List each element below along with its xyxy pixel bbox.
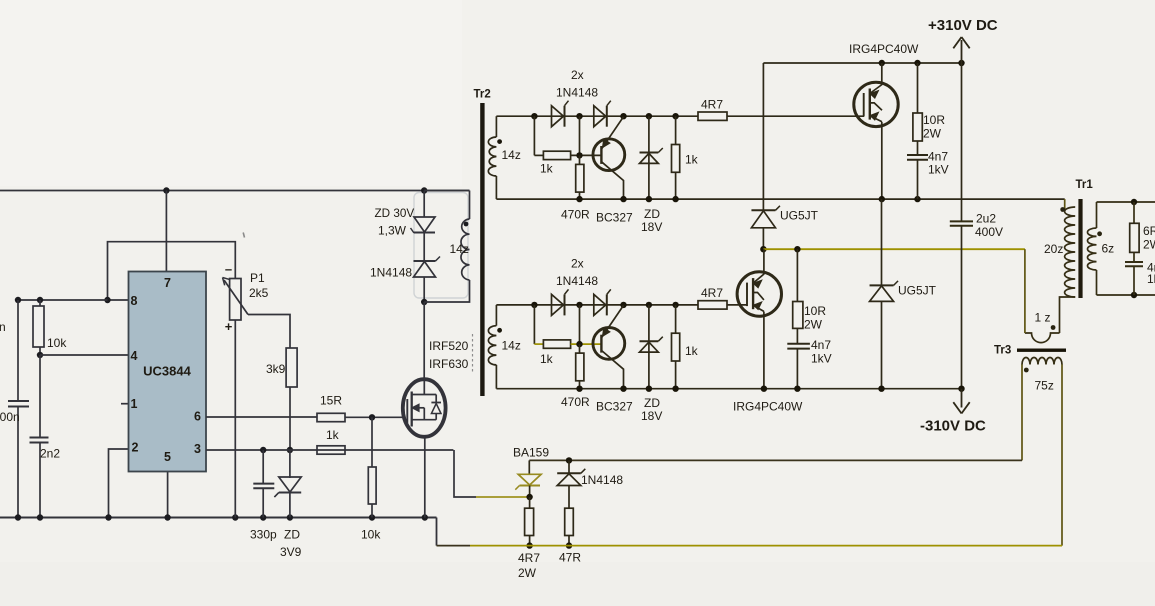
svg-text:1k: 1k — [540, 162, 554, 176]
wire sense bottom rail dark part — [437, 545, 471, 547]
resistor 4R7 gate — [698, 112, 727, 120]
wire MOSFET source to ground — [424, 436, 426, 518]
diode UG5JT bottom branch — [881, 199, 883, 285]
wire pin 5 to ground — [167, 471, 169, 518]
resistor 1k vertical — [672, 145, 680, 173]
svg-text:IRF630: IRF630 — [429, 357, 469, 371]
node 10k top — [37, 297, 43, 303]
resistor 470R — [576, 164, 584, 192]
svg-text:IRG4PC40W: IRG4PC40W — [733, 400, 803, 414]
zener ZD 18V — [648, 305, 650, 389]
IGBT mid stroke — [753, 293, 764, 300]
node 1N4148 sense top — [566, 457, 572, 463]
node pin4 junction — [37, 352, 43, 358]
-310V DC arrow — [953, 389, 969, 414]
svg-text:4R7: 4R7 — [701, 98, 723, 112]
svg-text:P1: P1 — [250, 271, 265, 285]
svg-text:20z: 20z — [1044, 242, 1063, 256]
wire sense down-jog — [454, 450, 476, 497]
wire left branch lower — [17, 407, 19, 518]
IC U1 UC3844 body — [129, 272, 207, 472]
wire 4R7 to top IGBT gate — [727, 115, 864, 117]
wire 75z left to sense top rail — [1021, 365, 1023, 461]
wire ground rail — [0, 517, 437, 519]
diode D2 1N4148 — [594, 106, 606, 127]
wire pin 3 current sense — [206, 449, 453, 451]
phase dot secondary — [497, 139, 502, 144]
capacitor 4n7 1kV bottom snubber — [787, 343, 810, 345]
svg-text:4n7: 4n7 — [928, 150, 948, 164]
node UG5JT bottom -310 rail — [878, 386, 884, 392]
zener ZD 18V — [648, 116, 650, 199]
svg-text:1N4148: 1N4148 — [370, 266, 412, 280]
IGBT channel bar — [869, 89, 871, 120]
svg-text:14z: 14z — [502, 339, 521, 353]
IGBT channel bar — [752, 278, 754, 309]
wire clamp to drain node — [423, 277, 425, 302]
wire interdiode to base — [579, 305, 581, 344]
svg-text:1k: 1k — [685, 152, 699, 166]
ground junction — [422, 514, 428, 520]
svg-text:1kV: 1kV — [1147, 272, 1155, 286]
node +310 cap — [958, 60, 964, 66]
svg-text:10k: 10k — [361, 528, 381, 542]
wire secondary top rail — [1097, 201, 1155, 203]
svg-text:300n: 300n — [0, 410, 20, 424]
node top-rail / pin7 — [163, 187, 169, 193]
wire pin 2 to ground — [109, 449, 129, 518]
svg-text:400V: 400V — [975, 225, 1003, 239]
IGBT mid stroke — [870, 103, 882, 110]
resistor 4R7 2W sense — [529, 497, 531, 508]
phase dot Tr2 primary — [464, 222, 469, 227]
wire node to MOSFET drain — [423, 302, 425, 379]
wire 330p branch — [262, 450, 264, 484]
svg-text:6: 6 — [194, 410, 201, 424]
dashed artifact near IRF labels — [472, 334, 474, 372]
ground junction — [164, 514, 170, 520]
node 3k9 / ZD 3V9 — [287, 447, 293, 453]
diode D2 1N4148 — [594, 294, 606, 315]
paste-artifact box around Tr2 primary — [414, 193, 468, 299]
resistor 4R7 gate — [698, 301, 727, 309]
node base junction — [576, 152, 582, 158]
svg-text:6R8: 6R8 — [1143, 224, 1155, 238]
svg-text:4: 4 — [131, 349, 138, 363]
BC327 base bar — [600, 335, 602, 353]
wire base — [571, 154, 601, 156]
wire 2n2 to ground — [39, 443, 41, 518]
svg-text:7: 7 — [164, 276, 171, 290]
capacitor output 4n7 — [1125, 261, 1143, 263]
svg-text:2W: 2W — [923, 127, 942, 141]
wire 330p to ground — [262, 488, 264, 517]
node 1k top — [672, 113, 678, 119]
svg-text:UC3844: UC3844 — [143, 364, 191, 379]
wire 1N4148 to 47R — [568, 486, 570, 509]
ground junction — [15, 514, 21, 520]
ground junction — [105, 514, 111, 520]
node emitter mid rail — [879, 196, 885, 202]
MOSFET channel bar — [411, 392, 413, 427]
svg-text:Tr1: Tr1 — [1076, 179, 1094, 191]
svg-text:UG5JT: UG5JT — [780, 209, 819, 223]
svg-text:1,3W: 1,3W — [378, 224, 407, 238]
capacitor 2n2 — [30, 437, 49, 439]
node top IGBT collector — [879, 60, 885, 66]
phase dot 1z — [1051, 325, 1056, 330]
wire 1k tap — [533, 305, 535, 344]
stray tick artifact — [243, 233, 244, 238]
wire secondary bottom rail — [1097, 294, 1155, 296]
svg-text:6z: 6z — [1102, 242, 1115, 256]
wire 1k tap — [533, 116, 535, 155]
wire bottom drive bottom rail / -310 rail — [496, 388, 961, 390]
node snubber mid rail — [914, 196, 920, 202]
resistor 6R8 2W output — [1133, 202, 1135, 223]
svg-text:4R7: 4R7 — [518, 551, 540, 565]
wire ground jog down — [436, 518, 438, 546]
svg-text:UG5JT: UG5JT — [898, 284, 937, 298]
BC327 emitter — [601, 305, 623, 338]
node bottom rail 1k — [672, 196, 678, 202]
node bottom emitter -310 rail — [761, 386, 767, 392]
svg-text:3k9: 3k9 — [266, 362, 286, 376]
wire pin 4 — [40, 354, 129, 356]
svg-text:3V9: 3V9 — [280, 545, 302, 559]
svg-text:330p: 330p — [250, 528, 277, 542]
wire 20z bottom step — [1060, 297, 1076, 333]
node bottom rail 470R — [576, 386, 582, 392]
svg-text:2x: 2x — [571, 257, 584, 271]
node bottom rail 470R — [576, 196, 582, 202]
capacitor 300n — [8, 400, 29, 402]
svg-text:ZD: ZD — [284, 528, 300, 542]
svg-text:18V: 18V — [641, 409, 662, 423]
wire pin 7 to rail — [165, 191, 167, 273]
node pin8 loop — [104, 297, 110, 303]
winding 20z — [1064, 199, 1066, 211]
svg-text:10R: 10R — [923, 113, 945, 127]
node 4R7 bottom rail — [526, 542, 532, 548]
svg-text:3: 3 — [194, 442, 201, 456]
node D2 cathode — [620, 113, 626, 119]
+310V DC arrow — [953, 37, 969, 63]
wire bottom IGBT collector — [763, 249, 765, 274]
wire 15R to gate — [345, 416, 404, 418]
Tr2 secondary winding 14z — [495, 116, 497, 137]
svg-text:470R: 470R — [561, 395, 590, 409]
MOSFET drain internal — [412, 379, 437, 395]
wire 470R to bottom rail — [579, 192, 581, 199]
MOSFET gate lead bar — [406, 399, 408, 426]
IGBT gate bar — [746, 283, 748, 307]
node bottom rail 1k — [672, 386, 678, 392]
svg-text:BC327: BC327 — [596, 211, 633, 225]
capacitor 4n7 1kV top snubber — [907, 154, 928, 156]
svg-text:470R: 470R — [561, 207, 590, 221]
wire +310V rail — [763, 62, 961, 64]
MOSFET source internal — [412, 408, 437, 420]
wire 3k9 to pin3 net — [289, 387, 291, 450]
svg-text:14z: 14z — [450, 242, 469, 256]
node midpoint olive — [760, 246, 766, 252]
svg-text:2W: 2W — [518, 566, 537, 580]
resistor 10R 2W bottom snubber — [796, 249, 798, 301]
wire pin 6 to 15R — [206, 416, 317, 418]
svg-text:75z: 75z — [1035, 379, 1054, 393]
IGBT emitter stroke — [870, 116, 882, 122]
diode D1 1N4148 — [552, 106, 564, 127]
node zener top — [646, 113, 652, 119]
IGBT emitter stroke — [753, 305, 764, 311]
wire 4R7 to bottom IGBT gate — [727, 304, 748, 306]
capacitor 2u2 400V branch — [961, 63, 963, 221]
wire interdiode to base — [579, 116, 581, 155]
MOSFET source arrow — [412, 407, 424, 409]
IGBT body circle — [737, 272, 781, 316]
IGBT collector stroke — [753, 274, 764, 283]
svg-text:47R: 47R — [559, 551, 581, 565]
svg-text:1kV: 1kV — [928, 163, 949, 177]
wire sense top rail — [529, 459, 1022, 461]
node 2u2 -310 rail — [958, 386, 964, 392]
resistor 1k vertical — [672, 333, 680, 361]
wire Vref loop pin8 to P1 top — [108, 242, 236, 300]
wire Tr2 primary loop bottom — [424, 280, 469, 302]
svg-text:Tr2: Tr2 — [474, 89, 491, 101]
wire gate-drive top rail — [496, 115, 698, 117]
wire pin 8 stub — [108, 299, 129, 301]
svg-text:2u2: 2u2 — [976, 212, 996, 226]
svg-text:14z: 14z — [502, 148, 521, 162]
svg-text:ZD: ZD — [644, 207, 660, 221]
wire left branch upper — [17, 300, 19, 401]
transformer Tr2 core — [480, 103, 484, 396]
Tr2 primary winding 14z — [461, 219, 470, 280]
phase dot 6z — [1097, 231, 1102, 236]
wire midpoint olive to Tr1 — [763, 248, 1025, 250]
wire 470R to bottom rail — [579, 381, 581, 389]
phase dot 20z — [1060, 207, 1065, 212]
svg-text:15R: 15R — [320, 394, 342, 408]
svg-text:4n7: 4n7 — [811, 338, 831, 352]
wire P1 bottom to ground — [234, 320, 236, 518]
node 1k top — [672, 302, 678, 308]
svg-text:10R: 10R — [804, 304, 826, 318]
resistor 470R — [576, 353, 584, 381]
wire gate-drive top rail — [496, 304, 698, 306]
resistor 10R 2W top snubber — [917, 63, 919, 113]
node gate / 10k — [369, 414, 375, 420]
MOSFET body diode — [435, 395, 437, 420]
node interdiode — [576, 302, 582, 308]
node anode D1 — [531, 302, 537, 308]
winding 75z — [1022, 358, 1062, 365]
wire 10k to 2n2 — [39, 355, 41, 438]
ground junction — [232, 514, 238, 520]
wire Tr2 primary loop top — [424, 190, 469, 192]
svg-text:1: 1 — [131, 397, 138, 411]
svg-text:5: 5 — [164, 450, 171, 464]
node bottom snubber tap — [794, 246, 800, 252]
transformer Tr1 core — [1078, 199, 1082, 298]
wire pin8 rail to left — [18, 299, 108, 301]
diode BA159 — [528, 460, 530, 474]
svg-text:10k: 10k — [47, 336, 67, 350]
resistor 15R — [317, 413, 345, 421]
BC327 collector — [601, 350, 623, 388]
winding 1z — [1025, 333, 1060, 343]
svg-text:ZD: ZD — [644, 396, 660, 410]
resistor 1k horizontal — [543, 151, 570, 159]
transistor Q1 MOSFET body — [403, 379, 446, 437]
IGBT body circle — [854, 82, 898, 126]
node 6R8 bottom — [1131, 292, 1137, 298]
wire clamp from rail — [423, 191, 425, 218]
svg-text:-310V DC: -310V DC — [920, 418, 986, 435]
BC327 base bar — [600, 146, 602, 164]
svg-text:2W: 2W — [804, 318, 823, 332]
svg-text:100n: 100n — [0, 320, 6, 334]
transistor BC327 body — [593, 328, 625, 360]
svg-text:–: – — [225, 262, 232, 277]
svg-text:1k: 1k — [685, 344, 699, 358]
wire bottom IGBT emitter — [763, 312, 765, 389]
svg-text:1kV: 1kV — [811, 351, 832, 365]
node interdiode — [576, 113, 582, 119]
diode 1N4148 sense — [568, 460, 570, 473]
wire top rail Vcc — [0, 190, 470, 192]
BC327 emitter — [601, 117, 623, 150]
diode 1N4148 clamp — [414, 260, 436, 262]
diode UG5JT top — [751, 209, 775, 211]
transistor BC327 body — [593, 139, 625, 171]
ground junction — [37, 514, 43, 520]
svg-text:1N4148: 1N4148 — [556, 86, 598, 100]
svg-text:8: 8 — [131, 294, 138, 308]
svg-text:IRG4PC40W: IRG4PC40W — [849, 42, 919, 56]
IGBT collector stroke — [870, 85, 882, 94]
wire gate 10k branch — [371, 417, 373, 467]
wire sense jog olive part — [476, 496, 530, 498]
node 6R8 top — [1131, 199, 1137, 205]
node drain / Tr2 primary — [421, 299, 427, 305]
svg-text:BA159: BA159 — [513, 446, 549, 460]
node 330p tap — [260, 447, 266, 453]
ground junction — [287, 514, 293, 520]
svg-text:2W: 2W — [1143, 238, 1155, 252]
resistor 10k left — [33, 306, 44, 347]
zener ZD 30V — [414, 217, 435, 232]
svg-text:18V: 18V — [641, 220, 662, 234]
svg-text:+310V DC: +310V DC — [928, 17, 998, 34]
node anode D1 — [531, 113, 537, 119]
svg-text:1k: 1k — [326, 428, 340, 442]
svg-text:2: 2 — [132, 441, 139, 455]
node D2 cathode — [620, 302, 626, 308]
potentiometer P1 wiper arrow — [224, 280, 248, 315]
wire sense bottom rail olive — [470, 545, 1062, 547]
svg-text:1k: 1k — [540, 352, 554, 366]
potentiometer P1 body — [230, 279, 241, 321]
node bottom rail zener — [646, 196, 652, 202]
zener ZD 3V9 — [279, 477, 301, 492]
wire between clamp diodes — [423, 233, 425, 261]
capacitor 330p — [253, 483, 274, 485]
svg-text:2n2: 2n2 — [40, 447, 60, 461]
svg-text:2k5: 2k5 — [249, 286, 269, 300]
node bottom snubber rail — [794, 386, 800, 392]
wire 10k to ground — [371, 504, 373, 518]
svg-text:1N4148: 1N4148 — [556, 274, 598, 288]
BC327 collector — [601, 162, 623, 199]
wire 1z to midpoint — [1024, 249, 1026, 333]
wire 75z right to sense bottom rail — [1061, 365, 1063, 546]
wire top IGBT collector — [881, 63, 883, 85]
wire zener to ground — [289, 493, 291, 518]
node left wire top — [15, 297, 21, 303]
svg-text:IRF520: IRF520 — [429, 339, 469, 353]
IGBT gate bar — [863, 93, 865, 117]
resistor 10k gate — [368, 467, 376, 504]
wire BA159 to node — [529, 486, 531, 498]
node bottom rail collector — [620, 196, 626, 202]
winding 6z — [1096, 202, 1098, 228]
node top snubber — [914, 60, 920, 66]
phase dot 75z — [1024, 368, 1029, 373]
resistor 1k horizontal — [543, 340, 570, 348]
svg-text:1N4148: 1N4148 — [581, 473, 623, 487]
svg-text:4R7: 4R7 — [701, 286, 723, 300]
svg-text:BC327: BC327 — [596, 400, 633, 414]
wire 470R top — [579, 344, 581, 353]
phase dot secondary — [497, 328, 502, 333]
svg-text:2x: 2x — [571, 68, 584, 82]
resistor 1k pin3 — [317, 446, 345, 454]
svg-text:1 z: 1 z — [1035, 311, 1051, 325]
resistor 47R sense — [565, 508, 574, 535]
wire zener ZD3V9 branch — [289, 450, 291, 478]
wire base — [571, 343, 601, 345]
diode D1 1N4148 — [552, 294, 564, 315]
wire top IGBT emitter — [881, 122, 883, 199]
transformer Tr3 core — [1017, 349, 1066, 352]
wire P1 wiper to 3k9 — [248, 315, 290, 349]
node zener top — [646, 302, 652, 308]
Tr2 secondary winding 14z — [495, 305, 497, 326]
wire UG5JT top branch — [762, 63, 764, 210]
wire top drive bottom rail / midpoint rail — [496, 198, 1064, 200]
node 47R bottom rail — [566, 542, 572, 548]
wire UG5JT to midpoint node — [762, 227, 764, 249]
node clamp string top — [421, 187, 427, 193]
node bottom rail zener — [646, 386, 652, 392]
wire 470R top — [579, 155, 581, 164]
node base junction — [576, 341, 582, 347]
node sense divider left — [526, 494, 532, 500]
node bottom rail collector — [620, 386, 626, 392]
resistor 3k9 — [286, 348, 297, 387]
svg-text:ZD 30V: ZD 30V — [375, 207, 415, 220]
ground junction — [260, 514, 266, 520]
ground junction — [369, 514, 375, 520]
svg-text:Tr3: Tr3 — [994, 345, 1011, 357]
wire pin 1 stub — [121, 403, 129, 405]
svg-text:+: + — [225, 319, 233, 334]
